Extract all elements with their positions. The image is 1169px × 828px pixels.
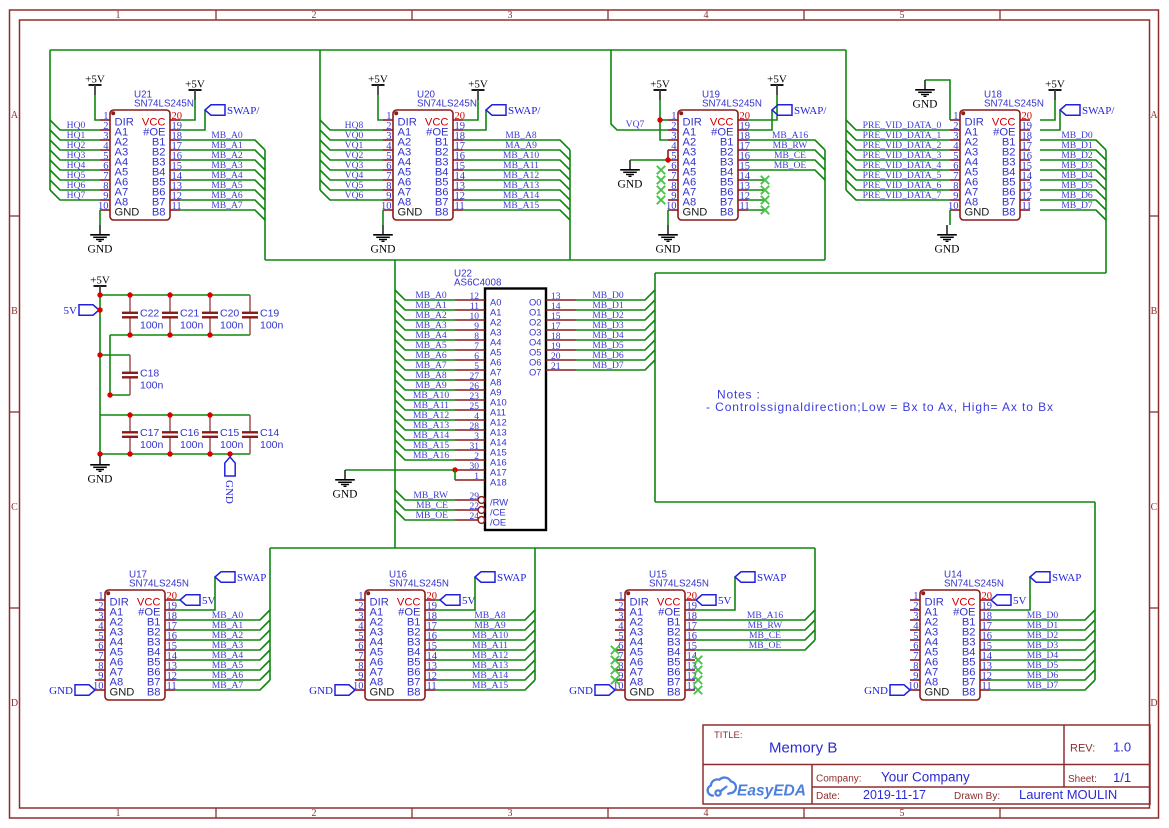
- svg-text:SN74LS245N: SN74LS245N: [649, 579, 709, 590]
- junction rail3: [167, 412, 172, 417]
- capacitor C20 100n: [202, 295, 244, 335]
- wire net MB_A12 from U20 pin14: [463, 180, 570, 190]
- wire net MB_A1 from U17 pin17: [175, 620, 270, 630]
- svg-text:5V: 5V: [462, 595, 476, 607]
- no-connect flag U19 pin6: [657, 166, 665, 174]
- svg-text:14: 14: [551, 302, 561, 312]
- wire top trunk y=50: [50, 49, 846, 51]
- wire net VQ0 to U20 pin3: [320, 130, 383, 140]
- svg-text:C22: C22: [140, 308, 159, 320]
- svg-text:28: 28: [470, 422, 480, 432]
- wire U16 pin19 OE to SWAP flag: [435, 577, 475, 610]
- svg-text:5: 5: [900, 10, 905, 21]
- svg-text:5V: 5V: [718, 595, 732, 607]
- wire net PRE_VID_DATA_6 to U18 pin8: [846, 180, 950, 190]
- svg-text:MB_A16: MB_A16: [413, 450, 449, 461]
- wire net MB_A9 to U22 A9: [395, 380, 455, 390]
- junction 5V flag: [97, 307, 102, 312]
- svg-text:11: 11: [470, 302, 479, 312]
- power +5V U21 VCC: [185, 79, 205, 101]
- svg-text:13: 13: [551, 292, 561, 302]
- svg-text:MB_OE: MB_OE: [749, 640, 782, 651]
- wire net MB_A4 from U17 pin14: [175, 650, 270, 660]
- svg-text:7: 7: [474, 342, 479, 352]
- wire net MB_A16 from U19 pin18: [748, 140, 825, 150]
- svg-text:SWAP/: SWAP/: [1082, 105, 1115, 117]
- wire U20 pin1 DIR from +5V: [378, 95, 383, 120]
- wire net MB_A15 from U16 pin11: [435, 680, 535, 690]
- wire net MB_RW from U15 pin17: [695, 620, 815, 630]
- power +5V cap bank: [90, 275, 110, 297]
- svg-text:VQ7: VQ7: [626, 119, 645, 130]
- svg-text:B8: B8: [720, 206, 734, 218]
- wire net MB_A13 from U20 pin13: [463, 190, 570, 200]
- svg-text:2: 2: [312, 808, 317, 819]
- svg-text:SWAP: SWAP: [237, 572, 266, 584]
- wire net MB_A11 from U16 pin15: [435, 640, 535, 650]
- svg-text:9: 9: [474, 322, 479, 332]
- svg-text:17: 17: [551, 322, 561, 332]
- svg-text:Drawn By:: Drawn By:: [954, 791, 1000, 802]
- svg-text:GND: GND: [864, 685, 888, 697]
- svg-text:SWAP: SWAP: [1052, 572, 1081, 584]
- svg-text:SWAP: SWAP: [757, 572, 786, 584]
- svg-text:B8: B8: [147, 686, 161, 698]
- no-connect flag U15 pin7: [611, 656, 619, 664]
- wire U21 output bus x=265: [264, 150, 266, 260]
- ground U22 A17: [333, 470, 358, 501]
- wire U19 output bus x=825: [824, 150, 826, 260]
- wire U19 pin12 nc stub: [748, 199, 765, 201]
- wire net MB_D6 from U18 pin12: [1040, 200, 1106, 210]
- net flag SWAP U14: [1030, 572, 1081, 584]
- IC U20 SN74LS245N body: [381, 90, 477, 221]
- svg-text:100n: 100n: [140, 380, 164, 392]
- wire net MB_OE from U15 pin15: [695, 640, 815, 650]
- svg-text:22: 22: [470, 502, 480, 512]
- wire U15 pin20 to 5V flag: [695, 599, 696, 601]
- svg-text:D: D: [1150, 698, 1157, 709]
- svg-text:GND: GND: [110, 686, 135, 698]
- junction rail1: [167, 292, 172, 297]
- wire net MB_OE from U19 pin15: [748, 170, 825, 180]
- net flag 5V cap bank: [64, 305, 99, 317]
- wire net MB_A8 from U20 pin18: [463, 140, 570, 150]
- wire net VQ2 to U20 pin5: [320, 150, 383, 160]
- wire net PRE_VID_DATA_4 to U18 pin6: [846, 160, 950, 170]
- svg-text:SN74LS245N: SN74LS245N: [417, 99, 477, 110]
- svg-text:B: B: [1151, 306, 1158, 317]
- junction rail4 left: [97, 451, 102, 456]
- power +5V U20 VCC: [468, 79, 488, 101]
- svg-text:SWAP: SWAP: [497, 572, 526, 584]
- wire net MB_A2 to U22 A2: [395, 310, 455, 320]
- svg-text:31: 31: [470, 442, 480, 452]
- svg-text:18: 18: [551, 332, 561, 342]
- wire net PRE_VID_DATA_5 to U18 pin7: [846, 170, 950, 180]
- wire net MB_D0 from U18 pin18: [1040, 140, 1106, 150]
- wire U19 pins 4-5 tie to GND: [667, 150, 669, 160]
- svg-text:3: 3: [474, 432, 479, 442]
- wire PRE_VID input bus x=846: [845, 50, 847, 190]
- svg-text:23: 23: [470, 392, 480, 402]
- wire net MB_D2 from U18 pin16: [1040, 160, 1106, 170]
- capacitor C18 100n: [122, 355, 164, 395]
- svg-text:+5V: +5V: [90, 275, 110, 287]
- svg-text:SN74LS245N: SN74LS245N: [984, 99, 1044, 110]
- svg-text:+5V: +5V: [368, 74, 388, 86]
- wire net MB_A3 from U17 pin15: [175, 640, 270, 650]
- svg-text:3: 3: [508, 808, 513, 819]
- wire net MB_D2 from U14 pin16: [990, 630, 1095, 640]
- svg-text:21: 21: [551, 362, 561, 372]
- wire net PRE_VID_DATA_3 to U18 pin5: [846, 150, 950, 160]
- wire net HQ6 to U21 pin8: [50, 180, 100, 190]
- svg-text:+5V: +5V: [85, 74, 105, 86]
- svg-text:SN74LS245N: SN74LS245N: [134, 99, 194, 110]
- svg-text:C15: C15: [220, 427, 239, 439]
- svg-text:100n: 100n: [220, 439, 244, 451]
- no-connect flag U19 pin11: [761, 206, 769, 214]
- no-connect flag U15 pin14: [694, 656, 702, 664]
- junction rail1: [207, 292, 212, 297]
- no-connect flag U19 pin7: [657, 176, 665, 184]
- junction U19 pin5: [665, 157, 670, 162]
- wire net HQ4 to U21 pin6: [50, 160, 100, 170]
- no-connect flag U15 pin13: [694, 666, 702, 674]
- svg-text:+5V: +5V: [650, 79, 670, 91]
- wire net MB_A9 from U16 pin17: [435, 620, 535, 630]
- power +5V U18 VCC: [1045, 79, 1065, 101]
- svg-text:5V: 5V: [1013, 595, 1027, 607]
- junction rail4: [127, 451, 132, 456]
- wire U20 output bus x=570: [569, 150, 571, 260]
- no-connect flag U15 pin11: [694, 686, 702, 694]
- svg-text:Laurent MOULIN: Laurent MOULIN: [1019, 787, 1117, 802]
- svg-text:4: 4: [474, 412, 479, 422]
- junction rail3: [207, 412, 212, 417]
- svg-text:A: A: [1150, 110, 1158, 121]
- junction rail2: [207, 332, 212, 337]
- svg-text:20: 20: [551, 352, 561, 362]
- svg-text:C18: C18: [140, 368, 159, 380]
- svg-text:2: 2: [474, 452, 479, 462]
- wire net MB_A6 from U17 pin12: [175, 670, 270, 680]
- capacitor C15 100n: [202, 415, 244, 454]
- no-connect flag U15 pin12: [694, 676, 702, 684]
- svg-text:B8: B8: [667, 686, 681, 698]
- capacitor C17 100n: [122, 415, 164, 454]
- wire C18 bottom link: [110, 394, 130, 396]
- svg-text:C16: C16: [180, 427, 199, 439]
- svg-text:15: 15: [551, 312, 561, 322]
- svg-text:Company:: Company:: [816, 774, 862, 785]
- wire net MB_A14 from U16 pin12: [435, 670, 535, 680]
- wire U19 pin13 nc stub: [748, 189, 765, 191]
- wire net MB_D2 from U22 O2: [576, 310, 655, 320]
- svg-text:Your Company: Your Company: [881, 770, 970, 785]
- svg-text:B: B: [11, 306, 18, 317]
- svg-text:100n: 100n: [180, 439, 204, 451]
- svg-text:MB_A15: MB_A15: [472, 680, 508, 691]
- net flag GND U17: [49, 685, 95, 697]
- svg-text:+5V: +5V: [185, 79, 205, 91]
- svg-text:SWAP/: SWAP/: [508, 105, 541, 117]
- wire net MB_A12 to U22 A12: [395, 410, 455, 420]
- svg-text:5: 5: [900, 808, 905, 819]
- svg-text:11: 11: [1022, 201, 1032, 212]
- wire U17 pin20 to 5V flag: [175, 599, 180, 601]
- svg-text:SN74LS245N: SN74LS245N: [702, 99, 762, 110]
- svg-text:100n: 100n: [180, 320, 204, 332]
- wire net MB_A7 from U21 pin11: [180, 210, 265, 220]
- ground U19 A4: [618, 160, 643, 191]
- svg-text:B8: B8: [152, 206, 166, 218]
- wire U20 pin19 OE to SWAP/ flag: [463, 110, 486, 130]
- svg-text:19: 19: [551, 342, 561, 352]
- wire cap rail2 y=335: [110, 334, 250, 336]
- wire net MB_A16 to U22 A16: [395, 450, 455, 460]
- wire net HQ8 to U20 pin2: [320, 120, 383, 130]
- junction U19 pin1: [657, 117, 662, 122]
- wire net VQ4 to U20 pin7: [320, 170, 383, 180]
- power +5V U19 DIR: [650, 79, 670, 101]
- wire net MB_A2 from U21 pin16: [180, 160, 265, 170]
- wire U19 pin14 nc stub: [748, 179, 765, 181]
- wire net MB_D6 from U22 O6: [576, 350, 655, 360]
- junction rail4: [167, 451, 172, 456]
- net flag SWAP U15: [735, 572, 786, 584]
- wire net MB_A0 to U22 A0: [395, 290, 455, 300]
- net flag GND U15: [569, 685, 615, 697]
- svg-text:B8: B8: [435, 206, 449, 218]
- svg-text:+5V: +5V: [1045, 79, 1065, 91]
- svg-text:D: D: [11, 698, 18, 709]
- wire U22 A17-A18 tie: [454, 470, 456, 480]
- svg-text:10: 10: [470, 312, 480, 322]
- wire net MB_A8 to U22 A8: [395, 370, 455, 380]
- svg-text:GND: GND: [88, 474, 113, 486]
- wire cap bottom rail y=454: [100, 453, 250, 455]
- wire MB_D upper trunk y=273: [655, 272, 1106, 274]
- wire net MB_A15 to U22 A15: [395, 440, 455, 450]
- wire U14 output bus x=1095: [1094, 502, 1096, 680]
- svg-text:C21: C21: [180, 308, 199, 320]
- IC U22 AS6C4008 body: [454, 269, 576, 531]
- svg-text:C: C: [1151, 502, 1158, 513]
- power +5V U19 VCC: [767, 74, 787, 96]
- junction rail1 left: [97, 292, 102, 297]
- wire net MB_A15 from U20 pin11: [463, 210, 570, 220]
- ground cap bank: [88, 455, 113, 486]
- wire U19 pin19 OE to SWAP/ flag: [748, 110, 772, 130]
- svg-text:27: 27: [470, 372, 480, 382]
- wire net MA_A9 from U20 pin17: [463, 150, 570, 160]
- wire net MB_D3 from U22 O3: [576, 320, 655, 330]
- svg-text:VQ6: VQ6: [345, 190, 364, 201]
- wire U17 output bus x=270: [269, 548, 271, 680]
- svg-text:4: 4: [704, 808, 709, 819]
- wire net MB_A14 from U20 pin12: [463, 200, 570, 210]
- wire net MB_D0 from U22 O0: [576, 290, 655, 300]
- svg-text:26: 26: [470, 382, 480, 392]
- IC U18 SN74LS245N body: [948, 90, 1044, 221]
- svg-text:C20: C20: [220, 308, 239, 320]
- svg-text:GND: GND: [656, 244, 681, 256]
- wire net MB_A13 from U16 pin13: [435, 660, 535, 670]
- svg-text:B8: B8: [1002, 206, 1016, 218]
- wire net MB_A8 from U16 pin18: [435, 610, 535, 620]
- svg-text:GND: GND: [569, 685, 593, 697]
- svg-text:30: 30: [470, 462, 480, 472]
- svg-text:A: A: [11, 110, 19, 121]
- wire U15 pin19 OE to SWAP flag: [695, 577, 735, 610]
- svg-text:TITLE:: TITLE:: [714, 730, 743, 741]
- wire net MB_A3 from U21 pin15: [180, 170, 265, 180]
- capacitor C14 100n: [242, 415, 284, 454]
- wire U22 A17 to GND: [345, 469, 455, 471]
- wire net MB_D0 from U14 pin18: [990, 610, 1095, 620]
- svg-text:MB_D7: MB_D7: [1027, 680, 1059, 691]
- wire net MB_A4 to U22 A4: [395, 330, 455, 340]
- net flag 5V U14: [991, 595, 1027, 607]
- wire net MB_A5 to U22 A5: [395, 340, 455, 350]
- wire net MB_D5 from U14 pin13: [990, 660, 1095, 670]
- wire net VQ1 to U20 pin4: [320, 140, 383, 150]
- svg-text:GND: GND: [371, 244, 396, 256]
- svg-text:SN74LS245N: SN74LS245N: [389, 579, 449, 590]
- svg-text:1: 1: [116, 808, 121, 819]
- wire net HQ3 to U21 pin5: [50, 150, 100, 160]
- wire net MB_A10 from U16 pin16: [435, 630, 535, 640]
- wire net VQ6 to U20 pin9: [320, 190, 383, 200]
- wire net MB_A0 from U17 pin18: [175, 610, 270, 620]
- wire net VQ5 to U20 pin8: [320, 180, 383, 190]
- svg-text:Memory B: Memory B: [769, 740, 837, 757]
- wire net HQ5 to U21 pin7: [50, 170, 100, 180]
- wire net MB_OE to U22 /OE: [395, 510, 455, 520]
- svg-text:2019-11-17: 2019-11-17: [863, 788, 926, 802]
- wire bottom MB_A trunk y=548: [270, 547, 815, 549]
- svg-text:A18: A18: [490, 477, 507, 488]
- junction rail4: [207, 451, 212, 456]
- wire net MB_A11 from U20 pin15: [463, 170, 570, 180]
- wire net MB_D3 from U14 pin15: [990, 640, 1095, 650]
- capacitor C16 100n: [162, 415, 204, 454]
- svg-text:C17: C17: [140, 427, 159, 439]
- svg-text:C19: C19: [260, 308, 279, 320]
- wire net VQ3 to U20 pin6: [320, 160, 383, 170]
- wire U20 pin10 GND stub: [382, 210, 384, 225]
- wire net PRE_VID_DATA_1 to U18 pin3: [846, 130, 950, 140]
- wire U18 pin1 DIR to GND: [925, 80, 950, 120]
- net flag 5V U16: [440, 595, 476, 607]
- no-connect flag U15 pin8: [611, 666, 619, 674]
- no-connect flag U19 pin8: [657, 186, 665, 194]
- wire C18 top link: [100, 354, 130, 356]
- wire net MB_A12 from U16 pin14: [435, 650, 535, 660]
- wire net HQ2 to U21 pin4: [50, 140, 100, 150]
- wire net MB_D3 from U18 pin15: [1040, 170, 1106, 180]
- no-connect flag U19 pin14: [761, 176, 769, 184]
- svg-text:GND: GND: [115, 206, 140, 218]
- net flag SWAP/ U19: [772, 105, 827, 117]
- ground U21: [88, 225, 113, 256]
- wire U20 pin20 VCC from +5V: [463, 100, 478, 120]
- svg-text:29: 29: [470, 492, 480, 502]
- svg-text:GND: GND: [618, 179, 643, 191]
- junction rail2: [127, 332, 132, 337]
- capacitor C19 100n: [242, 295, 284, 335]
- wire MB_D left trunk x=655: [654, 273, 656, 502]
- wire net MB_A6 from U21 pin12: [180, 200, 265, 210]
- ground U20: [371, 225, 396, 256]
- EasyEDA logo: [708, 778, 736, 796]
- wire net MB_D4 from U18 pin14: [1040, 180, 1106, 190]
- net flag GND U14: [864, 685, 910, 697]
- wire net MB_D7 from U14 pin11: [990, 680, 1095, 690]
- net flag SWAP U17: [215, 572, 266, 584]
- svg-text:GND: GND: [925, 686, 950, 698]
- wire U19 pin11 nc stub: [748, 209, 765, 211]
- svg-text:GND: GND: [309, 685, 333, 697]
- wire net MB_A16 from U15 pin18: [695, 610, 815, 620]
- wire net HQ1 to U21 pin3: [50, 130, 100, 140]
- wire net MB_A10 to U22 A10: [395, 390, 455, 400]
- svg-text:PRE_VID_DATA_7: PRE_VID_DATA_7: [863, 190, 942, 201]
- IC U15 SN74LS245N body: [613, 570, 709, 701]
- junction GND flag tap: [227, 451, 232, 456]
- wire net MB_D6 from U14 pin12: [990, 670, 1095, 680]
- wire net MB_A7 to U22 A7: [395, 360, 455, 370]
- svg-text:1: 1: [116, 10, 121, 21]
- wire net MB_D7 from U18 pin11: [1040, 210, 1106, 220]
- wire net MB_A1 from U21 pin17: [180, 150, 265, 160]
- wire net MB_A7 from U17 pin11: [175, 680, 270, 690]
- capacitor C21 100n: [162, 295, 204, 335]
- wire U16 output bus x=535: [534, 548, 536, 680]
- svg-text:GND: GND: [683, 206, 708, 218]
- wire net MB_A2 from U17 pin16: [175, 630, 270, 640]
- svg-text:GND: GND: [398, 206, 423, 218]
- svg-text:GND: GND: [88, 244, 113, 256]
- wire net HQ7 to U21 pin9: [50, 190, 100, 200]
- svg-text:100n: 100n: [140, 439, 164, 451]
- wire net PRE_VID_DATA_2 to U18 pin4: [846, 140, 950, 150]
- net flag SWAP/ U18: [1060, 105, 1115, 117]
- wire net MB_A4 from U21 pin14: [180, 180, 265, 190]
- wire net MB_CE to U22 /CE: [395, 500, 455, 510]
- wire U19 pin10 GND stub: [667, 210, 669, 225]
- wire net PRE_VID_DATA_0 to U18 pin2: [846, 120, 950, 130]
- wire net MB_D4 from U14 pin14: [990, 650, 1095, 660]
- junction U22 A17: [452, 467, 457, 472]
- ground U19: [656, 225, 681, 256]
- wire net MB_D1 from U18 pin17: [1040, 150, 1106, 160]
- svg-text:100n: 100n: [260, 320, 284, 332]
- svg-text:6: 6: [474, 352, 479, 362]
- svg-text:SWAP/: SWAP/: [227, 105, 260, 117]
- wire net MB_D7 from U22 O7: [576, 360, 655, 370]
- wire U21 pin20 VCC from +5V: [180, 100, 195, 120]
- IC U19 SN74LS245N body: [666, 90, 762, 221]
- wire net MB_A5 from U21 pin13: [180, 190, 265, 200]
- net flag GND U16: [309, 685, 355, 697]
- wire net MB_D1 from U22 O1: [576, 300, 655, 310]
- wire cap rail3 y=415: [100, 414, 250, 416]
- svg-text:Date:: Date:: [816, 791, 840, 802]
- svg-text:MB_D7: MB_D7: [1061, 200, 1093, 211]
